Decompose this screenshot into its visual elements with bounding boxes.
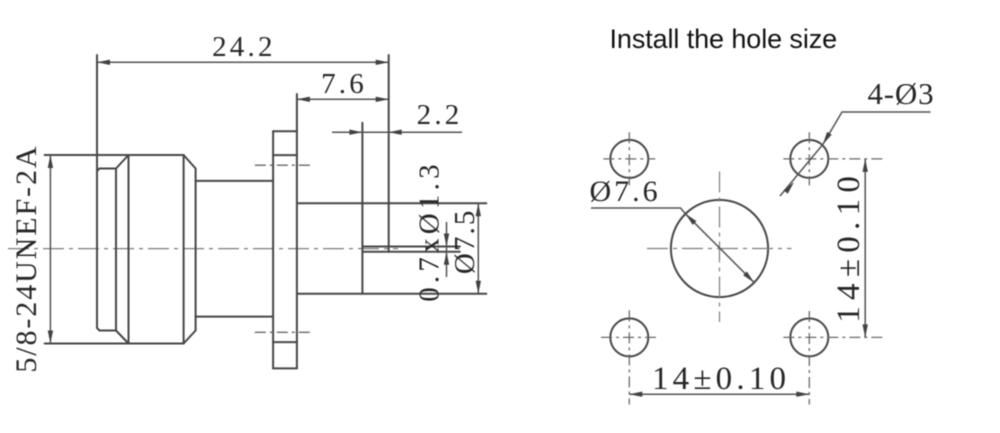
svg-text:0.7xØ1.3: 0.7xØ1.3 <box>414 160 446 302</box>
dimension 7.6 <box>297 68 389 102</box>
step bottom edge <box>100 330 117 332</box>
dimension 24.2 <box>97 31 389 65</box>
svg-text:Ø7.5: Ø7.5 <box>449 209 481 275</box>
flange hole top line <box>273 154 297 156</box>
dimension 5/8-24UNEF-2A <box>10 145 53 373</box>
pin tip face + right extension of 24.2 <box>388 55 390 252</box>
nut bottom flat + thread dim extension <box>45 343 184 345</box>
svg-text:Install the hole size: Install the hole size <box>610 24 838 54</box>
hole bottom-left circle <box>610 318 648 356</box>
step top edge <box>100 168 117 170</box>
hole top-right crosshair + right dim extension <box>808 132 810 185</box>
flange right face + 7.6 extension <box>296 94 298 368</box>
nut chamfer bottom front <box>184 331 196 344</box>
center hole crosshair <box>647 248 792 250</box>
dimension 2.2 <box>332 99 463 135</box>
label 4-&#216;3 with leader <box>780 76 934 196</box>
dimension &#216;7.5 <box>449 203 481 293</box>
svg-text:Ø7.6: Ø7.6 <box>590 175 661 208</box>
nut hex edge rear <box>128 155 130 344</box>
dimension 0.7x&#216;1.3 <box>414 160 450 302</box>
dielectric front face + 2.2 extension <box>361 123 363 294</box>
flange top edge <box>273 130 297 132</box>
hole top-left crosshair <box>628 132 630 185</box>
dimension bottom 14 +/- 0.10 <box>629 361 809 397</box>
pin bottom edge + 1.3 extension <box>362 251 459 253</box>
step top-left chamfer <box>97 169 100 172</box>
svg-text:5/8-24UNEF-2A: 5/8-24UNEF-2A <box>10 145 43 373</box>
svg-text:7.6: 7.6 <box>321 68 367 100</box>
dielectric top edge + 7.5 extension <box>297 202 486 204</box>
label &#216;7.6 with leader <box>590 175 755 283</box>
dimension right 14 +/- 0.10 <box>831 159 868 338</box>
step left edge + 24.2 left extension line <box>96 55 98 328</box>
nut hex edge front <box>183 155 185 344</box>
dielectric bottom edge + 7.5 extension <box>297 293 486 295</box>
svg-text:4-Ø3: 4-Ø3 <box>868 76 935 111</box>
body top <box>196 180 274 182</box>
hole top-right circle <box>790 140 828 178</box>
hole bottom-right circle <box>790 318 828 356</box>
nut chamfer top front <box>184 155 196 169</box>
hole top-left circle <box>610 140 648 178</box>
nut front face <box>195 169 197 331</box>
body bottom <box>196 316 274 318</box>
nut chamfer top rear <box>116 155 129 169</box>
pin top edge + 1.3 extension <box>362 246 459 248</box>
flange bottom edge <box>273 367 297 369</box>
flange left face <box>272 131 274 368</box>
flange hole bottom line <box>273 341 297 343</box>
flange hole lower centerline <box>255 331 314 333</box>
nut back face <box>115 169 117 331</box>
nut chamfer bottom rear <box>116 331 129 344</box>
main centerline <box>8 248 398 250</box>
hole bottom-left crosshair + bottom dim extension <box>628 310 630 404</box>
hole bottom-right crosshair + extensions <box>808 311 810 405</box>
flange hole upper centerline <box>255 164 314 166</box>
nut top flat + thread dim extension <box>45 154 184 156</box>
step bottom-left chamfer <box>97 328 100 331</box>
svg-text:24.2: 24.2 <box>212 31 276 63</box>
svg-text:14±0.10: 14±0.10 <box>831 170 867 323</box>
svg-text:2.2: 2.2 <box>417 99 463 131</box>
center hole circle <box>671 200 768 297</box>
svg-text:14±0.10: 14±0.10 <box>652 361 790 397</box>
